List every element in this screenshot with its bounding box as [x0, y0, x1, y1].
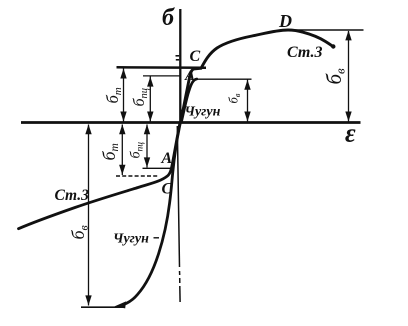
sigma_B cast iron level line — [195, 78, 252, 80]
svg-text:ε: ε — [345, 119, 356, 148]
bottom reference line — [81, 306, 125, 308]
sigma_T level line (tension) — [117, 66, 207, 69]
sigma_PC level line (tension) — [143, 75, 181, 77]
svg-text:A: A — [161, 150, 173, 167]
steel compression curve — [19, 124, 180, 229]
compression sigma_T dimension line — [119, 124, 125, 175]
cast iron compression curve — [123, 124, 181, 305]
compression sigma_PC level line — [143, 167, 173, 169]
arrowhead at end of cast iron compression curve — [115, 301, 127, 308]
sigma_B cast iron dimension line — [244, 80, 250, 122]
sigma_B steel dimension line — [345, 30, 351, 121]
cast iron label (tension) with leader dash — [181, 105, 221, 120]
sigma_B steel top reference line — [294, 29, 364, 31]
svg-text:Ст.3: Ст.3 — [55, 187, 90, 204]
svg-text:C: C — [190, 48, 201, 65]
tick marks on sigma axis near C — [176, 55, 180, 57]
sigma_T dimension line (tension) — [120, 68, 126, 122]
svg-text:Чугун: Чугун — [185, 105, 221, 120]
cast iron label (compression) with leader dash — [113, 232, 159, 247]
steel tension curve — [181, 30, 333, 122]
svg-text:Ст.3: Ст.3 — [287, 44, 323, 61]
svg-text:Чугун: Чугун — [113, 232, 149, 247]
svg-text:C: C — [162, 181, 173, 198]
compression sigma_B dimension line — [85, 124, 91, 305]
cast iron tension curve — [182, 79, 197, 122]
compression sigma_T level line (dashed) — [116, 175, 159, 177]
epsilon axis — [21, 121, 361, 124]
svg-text:D: D — [278, 11, 292, 31]
svg-text:A: A — [184, 68, 195, 84]
svg-text:б: б — [162, 5, 175, 31]
sigma axis — [177, 9, 180, 302]
sigma_PC dimension line (tension) — [147, 76, 153, 121]
compression sigma_PC dimension line — [144, 124, 150, 167]
